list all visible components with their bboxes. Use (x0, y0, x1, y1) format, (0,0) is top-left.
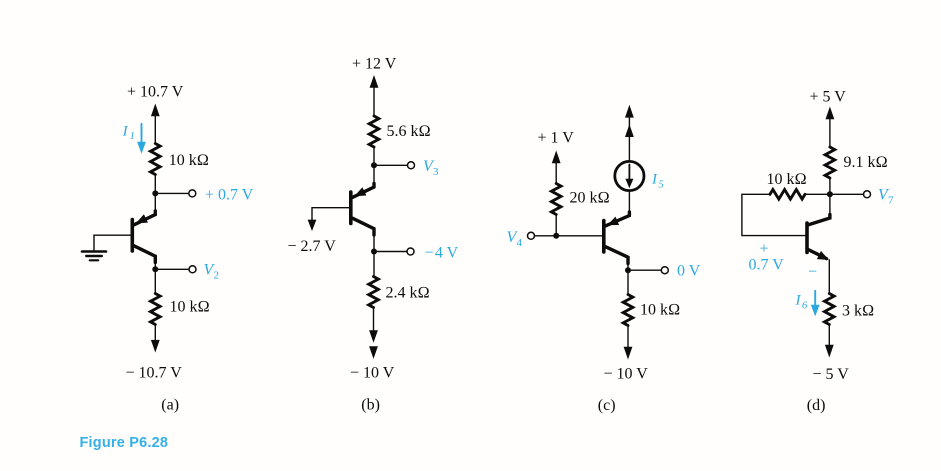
current label I6 (795, 293, 809, 312)
terminal -4V (407, 248, 414, 255)
svg-text:7: 7 (888, 195, 894, 207)
base wire with arrow to -2.7V (b) (308, 208, 350, 231)
terminal V7 (864, 191, 871, 198)
svg-text:10 kΩ: 10 kΩ (170, 299, 210, 316)
svg-text:+ 0.7 V: + 0.7 V (205, 187, 254, 204)
node collector junction (b) (371, 249, 377, 255)
value label 10 kOhm (d) (767, 171, 807, 188)
wire node to resistor (c) (627, 270, 629, 294)
svg-text:− 10 V: − 10 V (604, 366, 649, 383)
label (a) (161, 397, 179, 414)
svg-text:3 kΩ: 3 kΩ (842, 303, 874, 320)
terminal +0.7V (189, 190, 196, 197)
feedback wire to base (d) (742, 194, 806, 235)
wire node to terminal -4V (374, 251, 407, 253)
svg-text:I: I (122, 124, 129, 140)
current arrow I6 (811, 291, 820, 317)
wire node to terminal V2 (155, 268, 189, 270)
label V3 (423, 158, 439, 178)
wire collector lead (a) (154, 262, 156, 269)
label "+ 5 V" supply (810, 89, 847, 106)
wire + arrow down to -10V (c) (624, 326, 633, 360)
wire collector lead (b) (373, 235, 375, 252)
label - (vbe) (808, 264, 817, 281)
label "+ 0.7 V" (205, 187, 254, 204)
wire emitter lead (b) (373, 165, 375, 184)
label "-4 V" (425, 244, 459, 261)
svg-text:− 5 V: − 5 V (813, 366, 850, 383)
svg-text:+: + (760, 241, 769, 258)
terminal V3 (408, 162, 415, 169)
svg-text:4: 4 (517, 237, 523, 249)
svg-text:0 V: 0 V (677, 263, 701, 280)
label (b) (361, 397, 380, 414)
svg-text:− 2.7 V: − 2.7 V (288, 238, 337, 255)
figure caption (80, 435, 169, 451)
label "+ 12 V" supply (352, 56, 397, 73)
label V4 (507, 229, 523, 249)
svg-text:Figure P6.28: Figure P6.28 (80, 435, 169, 451)
value label 20 kOhm (570, 189, 610, 206)
node emitter junction (b) (371, 162, 377, 168)
value label 5.6 kOhm (387, 123, 431, 140)
transistor Q3 pnp (c) (604, 212, 630, 264)
wire node to terminal 0V (628, 269, 661, 271)
svg-text:10 kΩ: 10 kΩ (767, 171, 807, 188)
svg-text:(d): (d) (807, 397, 826, 414)
wire + double arrow down to -10V (b) (369, 308, 378, 359)
resistor 9.1 kOhm (825, 147, 835, 178)
svg-text:(a): (a) (161, 397, 179, 414)
svg-text:−: − (808, 264, 817, 281)
resistor 10 kOhm lower (a) (151, 294, 161, 325)
resistor 10 kOhm feedback (d) (770, 190, 805, 200)
wire source to emitter (c) (628, 191, 630, 213)
svg-text:5.6 kΩ: 5.6 kΩ (387, 123, 431, 140)
wire node to resistor (a) (154, 269, 156, 293)
supply double arrow up (c) (625, 105, 634, 161)
wire node to resistor (b) (373, 252, 375, 277)
wire node to terminal V3 (374, 164, 407, 166)
ground (82, 252, 106, 261)
wire collector lead (c) (627, 263, 629, 270)
transistor Q4 npn (d) (807, 194, 830, 260)
value label 9.1 kOhm (844, 154, 888, 171)
supply arrow up (b) (370, 75, 379, 116)
base wire to ground (a) (94, 235, 131, 250)
node collector junction (a) (152, 266, 158, 272)
wire + arrow down to -5V (d) (825, 325, 834, 358)
terminal V4 (528, 232, 535, 239)
svg-text:2.4 kΩ: 2.4 kΩ (386, 285, 430, 302)
svg-text:20 kΩ: 20 kΩ (570, 189, 610, 206)
svg-text:0.7 V: 0.7 V (749, 257, 785, 274)
wire node to resistor 10k (d) (805, 193, 830, 195)
value label 2.4 kOhm (386, 285, 430, 302)
label "- 10.7 V" (126, 365, 183, 382)
wire emitter to resistor (d) (828, 260, 830, 294)
svg-text:5: 5 (659, 179, 664, 190)
svg-text:− 10 V: − 10 V (350, 365, 395, 382)
base wire to V4 (c) (534, 235, 602, 237)
svg-text:+ 5 V: + 5 V (810, 89, 847, 106)
svg-text:10 kΩ: 10 kΩ (169, 152, 209, 169)
wire resistor to node (a) (154, 175, 156, 194)
wire node to terminal (a) (155, 192, 189, 194)
label + (vbe) (760, 241, 769, 258)
resistor 10 kOhm upper (a) (151, 144, 161, 175)
node base junction (c) (553, 233, 559, 239)
transistor Q2 pnp (b) (351, 184, 374, 236)
resistor 10 kOhm (c) (623, 295, 633, 326)
svg-text:+ 12 V: + 12 V (352, 56, 397, 73)
wire node to terminal V7 (830, 193, 864, 195)
svg-text:+ 1 V: + 1 V (538, 130, 575, 147)
value label 3 kOhm (842, 303, 874, 320)
supply arrow up +1V (c) (552, 151, 561, 184)
label "- 5 V" (813, 366, 850, 383)
label V2 (204, 262, 220, 282)
resistor 2.4 kOhm (369, 277, 379, 308)
wire + arrow down to -10.7V (151, 325, 160, 353)
svg-text:1: 1 (130, 131, 135, 142)
label "- 2.7 V" (288, 238, 337, 255)
resistor 3 kOhm (825, 294, 835, 325)
label "+ 1 V" (538, 130, 575, 147)
resistor 20 kOhm (551, 184, 561, 215)
wire resistor to node (b) (373, 147, 375, 165)
svg-text:2: 2 (214, 270, 220, 282)
node collector junction (c) (625, 267, 631, 273)
terminal 0V (661, 267, 668, 274)
wire emitter lead (a) (154, 193, 156, 211)
transistor Q1 pnp (a) (132, 211, 155, 263)
node emitter junction (a) (152, 190, 158, 196)
svg-text:+ 10.7 V: + 10.7 V (127, 84, 184, 101)
current label I1 (122, 124, 135, 142)
current arrow I1 (137, 124, 146, 154)
value label 10 kOhm (c) (640, 302, 680, 319)
label 0.7 V (vbe) (749, 257, 785, 274)
label (c) (598, 397, 616, 414)
terminal V2 (189, 266, 196, 273)
supply arrow up (a) (151, 104, 160, 144)
svg-text:6: 6 (802, 300, 808, 311)
svg-text:I: I (795, 293, 802, 309)
label (d) (807, 397, 826, 414)
supply arrow up (d) (826, 107, 835, 148)
resistor 5.6 kOhm (369, 116, 379, 147)
svg-text:10 kΩ: 10 kΩ (640, 302, 680, 319)
current source I5 (615, 161, 644, 190)
svg-text:(c): (c) (598, 397, 616, 414)
label "- 10 V" (b) (350, 365, 395, 382)
label I5 (651, 172, 664, 191)
value label 10 kOhm lower (a) (170, 299, 210, 316)
value label 10 kOhm upper (a) (169, 152, 209, 169)
svg-text:9.1 kΩ: 9.1 kΩ (844, 154, 888, 171)
label "- 10 V" (c) (604, 366, 649, 383)
label "+ 10.7 V" supply (127, 84, 184, 101)
label V7 (878, 187, 894, 207)
wire resistor to base node (c) (555, 215, 557, 236)
svg-text:I: I (651, 172, 658, 188)
wire resistor to node (d) (829, 178, 831, 194)
node collector junction (d) (827, 191, 833, 197)
svg-text:(b): (b) (361, 397, 380, 414)
svg-text:3: 3 (433, 166, 439, 178)
svg-text:− 4 V: − 4 V (425, 244, 459, 261)
svg-text:− 10.7 V: − 10.7 V (126, 365, 183, 382)
label "0 V" (677, 263, 701, 280)
